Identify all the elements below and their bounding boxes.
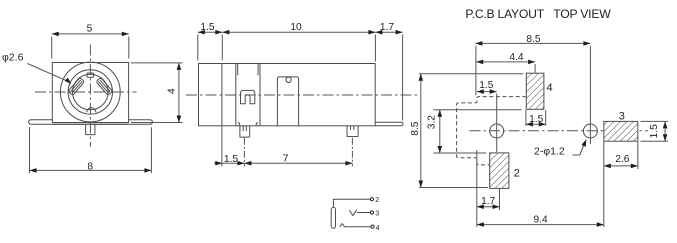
side view body bbox=[199, 64, 376, 126]
pcb dimension 1.7 bbox=[477, 206, 500, 208]
side view pin 1 bbox=[240, 126, 250, 137]
side view center contact block bbox=[277, 77, 298, 126]
dimension 4 extension lines bbox=[131, 62, 183, 64]
svg-text:8.5: 8.5 bbox=[410, 121, 421, 135]
svg-text:3: 3 bbox=[619, 110, 625, 122]
schematic terminal 2 circle bbox=[370, 198, 373, 201]
svg-text:2-φ1.2: 2-φ1.2 bbox=[534, 146, 565, 158]
pcb dimension 9.4 bbox=[477, 224, 604, 226]
pcb horizontal centerline bbox=[470, 130, 649, 132]
pin 1 centerline bbox=[243, 138, 245, 167]
hole 2 right bbox=[583, 124, 597, 138]
schematic wire to terminal 2 bbox=[333, 199, 370, 207]
side view right tab bbox=[375, 122, 403, 126]
front view vertical centerline bbox=[89, 45, 91, 147]
front view body bbox=[52, 63, 128, 123]
svg-text:8.5: 8.5 bbox=[526, 34, 540, 45]
dimension 5 extension lines bbox=[51, 37, 53, 59]
side view spring clip bbox=[241, 90, 255, 103]
svg-text:4: 4 bbox=[376, 225, 380, 232]
svg-text:φ2.6: φ2.6 bbox=[2, 51, 24, 63]
schematic wire to terminal 4 bbox=[345, 226, 371, 228]
svg-text:3.2: 3.2 bbox=[427, 115, 438, 129]
front view inner circle bbox=[68, 70, 112, 114]
svg-text:1.7: 1.7 bbox=[380, 22, 394, 33]
side view horizontal centerline bbox=[186, 94, 420, 96]
svg-text:1.5: 1.5 bbox=[529, 114, 543, 125]
front view bottom tab bbox=[86, 124, 95, 134]
schematic terminal 3 circle bbox=[370, 211, 373, 214]
front view horizontal centerline bbox=[35, 91, 137, 93]
svg-text:4: 4 bbox=[166, 88, 177, 94]
pcb dimension 4.4 bbox=[476, 61, 535, 63]
side view contact strip left wall bbox=[235, 64, 237, 126]
svg-text:10: 10 bbox=[290, 22, 302, 33]
svg-text:4: 4 bbox=[546, 82, 552, 94]
pcb dimension 3.2 bbox=[439, 110, 441, 153]
svg-text:1.5: 1.5 bbox=[224, 154, 238, 165]
side view internal wall line bbox=[221, 64, 223, 126]
side top dimension extension lines bbox=[197, 35, 199, 61]
svg-text:P.C.B LAYOUT TOP VIEW: P.C.B LAYOUT TOP VIEW bbox=[465, 7, 611, 21]
pad 3 height dimension 1.5 extension lines bbox=[641, 120, 669, 122]
svg-text:2: 2 bbox=[514, 168, 520, 180]
svg-text:8: 8 bbox=[87, 161, 93, 172]
pad 3 hatched bbox=[604, 121, 638, 141]
svg-text:5: 5 bbox=[87, 24, 93, 35]
hole 2 vertical centerline bbox=[589, 46, 591, 144]
front view left slot bbox=[68, 78, 85, 96]
schematic wire to terminal 3 bbox=[357, 212, 371, 214]
svg-text:7: 7 bbox=[283, 153, 289, 164]
pad 4 hatched bbox=[526, 73, 544, 109]
pin 2 centerline bbox=[351, 138, 353, 167]
svg-text:1.7: 1.7 bbox=[481, 196, 495, 207]
pcb dimension 3.2 extension lines bbox=[433, 109, 521, 111]
schematic tip contact bump bbox=[340, 224, 345, 227]
side view strip top slot stubs bbox=[237, 64, 239, 76]
dimension 4 bbox=[178, 63, 180, 123]
front view bore chamfer circle bbox=[73, 74, 109, 110]
svg-text:1.5: 1.5 bbox=[200, 22, 214, 33]
pcb overall height dimension 8.5 bbox=[420, 74, 422, 188]
svg-text:3: 3 bbox=[375, 211, 379, 218]
schematic plug barrel bbox=[331, 207, 335, 228]
pcb top dimension 8.5 extension line left bbox=[475, 46, 477, 95]
svg-text:4.4: 4.4 bbox=[509, 52, 523, 63]
svg-text:2.6: 2.6 bbox=[615, 154, 629, 165]
front view top key tab bbox=[87, 73, 94, 77]
svg-text:9.4: 9.4 bbox=[534, 215, 548, 226]
side top dimension chain 1.5 / 10 / 1.7 bbox=[198, 31, 403, 33]
front view outer circle bbox=[60, 62, 120, 122]
pcb dashed component outline bbox=[457, 97, 527, 165]
front view right slot bbox=[96, 78, 113, 96]
svg-text:1.5: 1.5 bbox=[649, 124, 660, 138]
pcb dimension 4.4 extension line bbox=[534, 64, 536, 73]
pad 4 width dimension 1.5 bbox=[526, 123, 546, 125]
side view contact strip right wall bbox=[259, 64, 261, 126]
side view pin 2 bbox=[347, 126, 358, 137]
schematic switch contact check bbox=[350, 210, 357, 216]
side bottom dimension chain 1.5 / 7 bbox=[214, 162, 352, 164]
pcb dimension 1.7 extension lines bbox=[476, 150, 478, 227]
svg-text:1.5: 1.5 bbox=[479, 80, 493, 91]
side view strip bottom feet bbox=[238, 122, 240, 125]
pad 3 width dimension 2.6 extension line bbox=[637, 142, 639, 169]
pcb overall height dimension 8.5 extension lines bbox=[419, 73, 523, 75]
dimension 8 bbox=[30, 169, 152, 171]
schematic terminal 4 circle bbox=[371, 225, 374, 228]
svg-text:2: 2 bbox=[375, 197, 379, 204]
side bottom dimension extension line bbox=[221, 127, 223, 167]
pcb top dimension 8.5 bbox=[475, 42, 590, 44]
dimension 8 extension lines bbox=[29, 127, 31, 173]
pcb dimension 1.5 to hole center bbox=[477, 91, 497, 93]
dimension 5 bbox=[52, 33, 129, 35]
pcb dimension 9.4 extension line right bbox=[603, 142, 605, 227]
front view bottom contact bump bbox=[87, 108, 96, 113]
pad 4 width dimension 1.5 extension lines bbox=[525, 110, 527, 126]
pad 3 width dimension 2.6 bbox=[604, 165, 638, 167]
pad 2 hatched bbox=[490, 153, 509, 189]
side view contact block hole bbox=[286, 77, 291, 82]
pad 3 height dimension 1.5 bbox=[664, 121, 666, 141]
front view mounting flange bbox=[29, 120, 153, 125]
hole 1 vertical centerline bbox=[496, 94, 498, 153]
hole 1 left bbox=[490, 124, 504, 138]
